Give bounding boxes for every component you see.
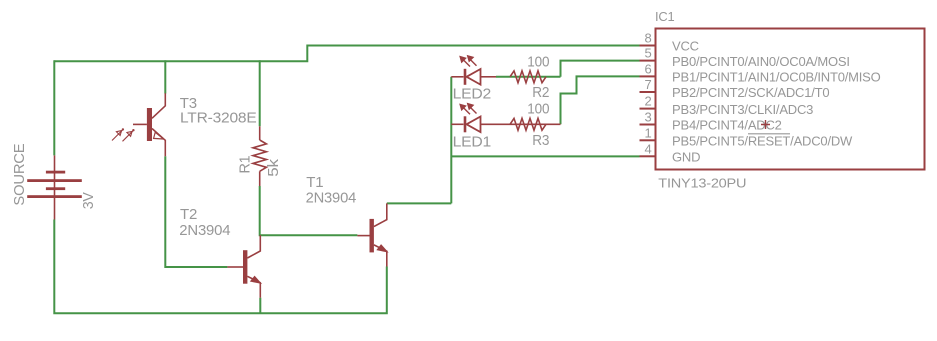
resistor R3 100: [510, 118, 546, 130]
IC1 pin stub 7: [640, 91, 656, 93]
IC1 pin stub 2: [640, 108, 656, 110]
svg-text:R1: R1: [236, 156, 253, 174]
LED1 light arrow 1: [460, 104, 470, 114]
IC1 origin cross: [761, 120, 770, 129]
IC1 pin stub 5: [640, 60, 656, 62]
wire LED cathode rail vertical: [450, 77, 452, 204]
wire T3 collector drop: [164, 60, 166, 93]
transistor T3 LTR-3208E: [133, 93, 165, 156]
svg-text:2: 2: [644, 94, 651, 109]
svg-text:2N3904: 2N3904: [306, 189, 357, 206]
svg-text:PB0/PCINT0/AIN0/OC0A/MOSI: PB0/PCINT0/AIN0/OC0A/MOSI: [672, 54, 850, 69]
svg-text:5: 5: [644, 46, 651, 61]
svg-text:100: 100: [527, 101, 549, 118]
svg-text:7: 7: [644, 77, 651, 92]
svg-text:8: 8: [644, 31, 651, 46]
IC1 pin stub 6: [640, 75, 656, 77]
svg-text:LTR-3208E: LTR-3208E: [180, 110, 257, 127]
wire R2 row green segment: [496, 76, 561, 78]
wire T1 collector to LED rail: [387, 202, 452, 204]
svg-text:PB1/PCINT1/AIN1/OC0B/INT0/MISO: PB1/PCINT1/AIN1/OC0B/INT0/MISO: [672, 70, 881, 85]
svg-text:2N3904: 2N3904: [179, 222, 230, 239]
wire GND pin4 net: [451, 155, 639, 157]
svg-text:6: 6: [644, 61, 651, 76]
svg-text:PB2/PCINT2/SCK/ADC1/T0: PB2/PCINT2/SCK/ADC1/T0: [672, 85, 829, 100]
svg-text:GND: GND: [672, 150, 700, 165]
LED2 light arrow 2: [467, 56, 476, 66]
LED2 light arrow 1: [460, 56, 470, 66]
svg-text:PB5/PCINT5/RESET/ADC0/DW: PB5/PCINT5/RESET/ADC0/DW: [672, 134, 853, 149]
svg-text:VCC: VCC: [672, 39, 699, 54]
svg-text:R2: R2: [532, 84, 549, 101]
wire T3 emitter to T2 base: [165, 156, 227, 267]
wire R2 to pin5: [561, 61, 640, 77]
T3 light arrow 1: [112, 128, 124, 140]
wire battery positive lead vertical: [53, 60, 55, 155]
wire R3 to pin6: [561, 76, 640, 124]
T3 light arrow 2: [123, 129, 135, 141]
wire R1 bottom / T2 collector to T1 base: [260, 186, 358, 235]
RESET overline: [748, 133, 790, 135]
resistor R1 5k: [253, 126, 266, 186]
svg-text:PB3/PCINT3/CLKI/ADC3: PB3/PCINT3/CLKI/ADC3: [672, 102, 813, 117]
svg-text:3V: 3V: [80, 192, 97, 209]
op IC1 box: [656, 29, 925, 170]
svg-text:5k: 5k: [265, 158, 282, 176]
svg-text:R3: R3: [532, 132, 549, 149]
wire VCC top rail lower segment: [54, 46, 639, 62]
wire R1 top drop: [259, 60, 261, 126]
wire battery negative to bottom rail: [54, 220, 387, 314]
svg-text:IC1: IC1: [655, 9, 675, 24]
svg-text:T2: T2: [180, 206, 197, 223]
svg-text:1: 1: [644, 125, 651, 140]
IC1 pin stub 1: [640, 139, 656, 141]
svg-text:LED2: LED2: [453, 86, 492, 103]
LED1: [451, 116, 560, 132]
svg-text:LED1: LED1: [453, 133, 492, 150]
wire T2 emitter to bottom rail: [259, 298, 261, 314]
LED2: [451, 69, 496, 85]
battery G1 SOURCE 3V: [27, 155, 82, 219]
transistor T2 2N3904: [227, 235, 260, 298]
svg-text:TINY13-20PU: TINY13-20PU: [658, 176, 746, 191]
svg-text:4: 4: [644, 141, 651, 156]
svg-text:100: 100: [527, 53, 549, 70]
IC1 pin stub 8: [640, 45, 656, 47]
resistor R2 100: [510, 71, 546, 83]
IC1 pin stub 3: [640, 124, 656, 126]
transistor T1 2N3904: [357, 203, 387, 266]
svg-text:SOURCE: SOURCE: [11, 143, 28, 205]
LED1 light arrow 2: [467, 103, 476, 113]
svg-text:3: 3: [644, 110, 651, 125]
IC1 pin stub 4: [640, 155, 656, 157]
